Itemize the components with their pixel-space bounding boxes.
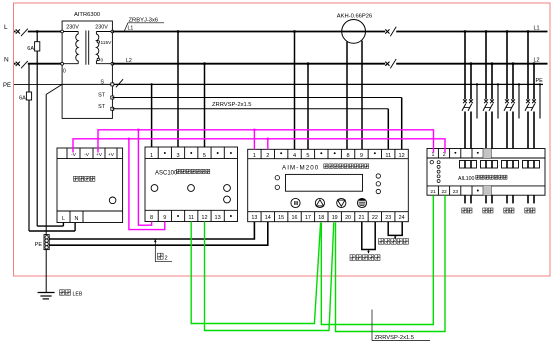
node N (incoming neutral) — [4, 57, 9, 64]
svg-text:4: 4 — [293, 153, 296, 159]
node PE (incoming earth) — [3, 83, 11, 89]
junction on +V bus to ASC pin 8 — [137, 129, 152, 226]
svg-text:21: 21 — [430, 189, 436, 195]
wire ASC pin12 to AIM pin19 (green) — [205, 222, 334, 331]
load branch 1: L2 drop — [470, 62, 473, 203]
wire L2 bus — [112, 63, 547, 65]
fuse F2 6A on N feeder — [19, 64, 32, 231]
wire -V bus (magenta) — [73, 139, 445, 153]
ground symbol (LEB) — [38, 293, 55, 299]
locator CT 2 — [481, 161, 498, 169]
svg-text:-V: -V — [84, 152, 90, 158]
switch on N — [14, 61, 28, 68]
wire AIM pin18 to AIL pin21 (green) — [321, 195, 433, 324]
svg-text:+V: +V — [108, 152, 115, 158]
wire ST1 — [112, 97, 401, 99]
svg-text:ST: ST — [98, 104, 106, 110]
switch on L — [14, 29, 28, 36]
switch tick on S line — [116, 79, 123, 87]
load branch 3: L2 drop — [512, 62, 515, 203]
switch on L1 — [385, 27, 396, 36]
svg-text:ASC100: ASC100 — [155, 170, 178, 176]
svg-text:5: 5 — [203, 153, 206, 159]
current transformer AKH-0.66P26 — [337, 13, 372, 43]
wire S line to ASC pin 1 — [150, 83, 152, 147]
svg-text:+V: +V — [96, 152, 103, 158]
svg-text:16: 16 — [292, 215, 298, 221]
load label 负载 3 — [504, 208, 514, 213]
load branch 2: L1 drop — [485, 30, 488, 203]
svg-text:24: 24 — [399, 215, 405, 221]
svg-text:12: 12 — [201, 215, 207, 221]
svg-text:ST: ST — [98, 93, 106, 99]
load label 负载 1 — [462, 208, 472, 213]
svg-text:N: N — [75, 216, 79, 222]
load branch 2: L2 drop — [491, 62, 494, 203]
load branch 4: L2 drop — [533, 62, 536, 203]
svg-text:11: 11 — [385, 153, 391, 159]
svg-text:13: 13 — [215, 215, 221, 221]
svg-text:23: 23 — [453, 189, 459, 195]
svg-text:LEB: LEB — [73, 292, 83, 298]
load branch 2: PE stub — [497, 83, 499, 118]
load branch 4: L1 drop — [527, 30, 530, 203]
svg-text:14: 14 — [265, 215, 271, 221]
node L2 right — [534, 58, 540, 64]
wire ST1 to AIM pin 12 — [401, 98, 403, 150]
svg-text:AIL100: AIL100 — [458, 176, 475, 182]
label ZRBYJ-3x6 — [124, 18, 164, 31]
svg-text:ZRRVSP-2x1.5: ZRRVSP-2x1.5 — [375, 335, 415, 341]
svg-text:5: 5 — [306, 153, 309, 159]
wire CT secondary to AIM pin 9 — [361, 41, 363, 150]
wire PE/S bus across full diagram — [14, 83, 543, 85]
svg-text:6A: 6A — [19, 95, 26, 101]
drawing frame border — [14, 3, 551, 276]
note 注2 leader — [154, 239, 172, 262]
svg-text:15: 15 — [278, 215, 284, 221]
svg-text:PE: PE — [536, 78, 544, 84]
svg-text:23: 23 — [385, 215, 391, 221]
locator CT 4 — [523, 161, 540, 169]
junction on -V bus to ASC pin 9 — [128, 138, 165, 230]
wire L1 bus — [112, 31, 547, 33]
svg-text:1: 1 — [150, 153, 153, 159]
wire AIM pin19 to AIL pin22 (green) — [336, 195, 446, 331]
node L2 (transformer output) — [126, 58, 132, 64]
svg-text:11: 11 — [188, 215, 194, 221]
svg-text:2: 2 — [443, 152, 446, 158]
svg-text:19: 19 — [332, 215, 338, 221]
wire AIM pin14 to PE bar — [49, 222, 268, 246]
breaker QF4 (2-pole) — [525, 99, 536, 110]
svg-text:20: 20 — [345, 215, 351, 221]
load branch 4: PE stub — [539, 83, 541, 118]
svg-text:N: N — [4, 57, 9, 64]
svg-text:12: 12 — [398, 153, 404, 159]
junction on -V bus to AIM pin 2 — [267, 138, 270, 150]
svg-text:8: 8 — [150, 215, 153, 221]
fault locator U4 AIL100 — [427, 149, 545, 196]
svg-text:L1: L1 — [534, 26, 540, 32]
svg-text:0: 0 — [63, 69, 66, 75]
breaker QF3 (2-pole) — [504, 99, 515, 110]
svg-text:3: 3 — [176, 153, 179, 159]
svg-text:13: 13 — [251, 215, 257, 221]
locator CT 3 — [502, 161, 519, 169]
wire L2 to ASC pin 5 — [203, 62, 206, 147]
svg-text:PE: PE — [35, 242, 43, 248]
label 室内LEB — [60, 290, 83, 298]
label ZRRVSP-2x1.5 (green cable) — [372, 310, 430, 342]
wire PE to transformer (diagonal) — [46, 84, 62, 94]
wire L2 to AIM pin 5 — [307, 62, 310, 149]
svg-text:PE: PE — [3, 83, 11, 89]
node L1 (transformer output) — [128, 26, 134, 32]
load branch 3: PE stub — [518, 83, 520, 118]
load branch 3: L1 drop — [506, 30, 509, 203]
wire ST2 to AIM pin 11 — [387, 109, 389, 150]
wire N to transformer — [28, 63, 62, 65]
breaker QF1 (2-pole) — [462, 99, 473, 110]
wire L1 to ASC pin 3 — [177, 30, 180, 147]
svg-text:1: 1 — [253, 153, 256, 159]
svg-text:8: 8 — [347, 153, 350, 159]
wire PE down to PE bar — [45, 94, 47, 234]
label ZRRVSP-2x1.5 (signal cable) — [212, 102, 252, 108]
power module U1 (电源模块) — [57, 148, 123, 223]
svg-text:22: 22 — [442, 189, 448, 195]
svg-text:L: L — [4, 24, 8, 31]
svg-text:21: 21 — [358, 215, 364, 221]
PE terminal bar — [35, 235, 49, 250]
svg-text:18: 18 — [318, 215, 324, 221]
external alarm loop (pins 23-24) — [379, 222, 409, 245]
svg-text:6A: 6A — [27, 46, 34, 52]
fuse F1 6A on L feeder — [27, 30, 40, 226]
svg-text:S: S — [100, 79, 104, 85]
breaker QF2 (2-pole) — [483, 99, 494, 110]
node PE right — [536, 78, 544, 84]
load branch 1: L1 drop — [464, 30, 467, 203]
svg-text:17: 17 — [305, 215, 311, 221]
load label 负载 2 — [483, 208, 493, 213]
svg-text:0: 0 — [101, 58, 104, 64]
wire CT secondary to AIM pin 8 — [346, 42, 348, 150]
svg-text:1: 1 — [432, 152, 435, 158]
transformer T1 AITR6300 — [61, 12, 114, 119]
svg-text:230V: 230V — [95, 24, 108, 30]
wire +V bus (magenta) — [98, 130, 434, 153]
svg-text:230V: 230V — [66, 24, 79, 30]
svg-text:-V: -V — [71, 152, 77, 158]
svg-text:ZRRVSP-2x1.5: ZRRVSP-2x1.5 — [212, 102, 252, 108]
svg-text:9: 9 — [163, 215, 166, 221]
svg-text:2: 2 — [266, 153, 269, 159]
junction on +V bus to AIM pin 1 — [253, 129, 256, 150]
wire L1 to AIM pin 4 — [293, 30, 296, 149]
svg-text:9: 9 — [360, 153, 363, 159]
node L1 right — [534, 26, 540, 32]
node L (incoming phase) — [4, 24, 8, 31]
ground wire — [45, 250, 47, 293]
svg-text:2: 2 — [165, 256, 168, 262]
wire fuse F2 to power module N — [29, 222, 75, 231]
svg-text:AIM-M200: AIM-M200 — [282, 164, 319, 171]
wire ASC pin11 to AIM pin18 (green) — [191, 222, 320, 324]
svg-text:AITR6300: AITR6300 — [74, 12, 100, 18]
wire AIM pin13 to PE bar — [49, 222, 254, 239]
svg-text:AKH-0.66P26: AKH-0.66P26 — [337, 13, 372, 19]
external fan loop (pins 21-22) — [350, 222, 380, 261]
wire ST2 — [112, 108, 388, 110]
load label 负载 4 — [525, 208, 535, 213]
signal generator U2 ASC100 — [145, 147, 238, 222]
svg-text:115V: 115V — [101, 40, 113, 46]
locator CT 1 — [460, 161, 477, 169]
insulation monitor U3 AIM-M200 — [248, 149, 409, 221]
wire fuse F1 to power module L — [37, 222, 63, 226]
switch on L2 — [385, 59, 396, 68]
wire L to transformer — [28, 31, 62, 33]
svg-text:L: L — [62, 216, 65, 222]
load branch 1: PE stub — [476, 83, 478, 118]
svg-text:22: 22 — [372, 215, 378, 221]
